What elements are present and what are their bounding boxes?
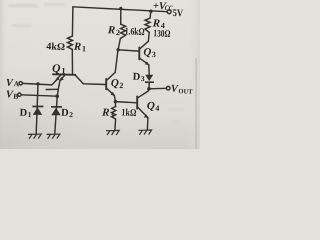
wire: output node to VOUT terminal [149, 87, 166, 90]
wire: R2 bottom lead to node [118, 39, 120, 50]
svg-text:1: 1 [82, 44, 86, 53]
junction dot VA-D1 [36, 82, 39, 85]
svg-text:D: D [61, 108, 69, 119]
Q1 emitter 2 diagonal [60, 75, 65, 80]
Q4 emitter diagonal [138, 107, 148, 117]
diode D3 (pointing down, cathode bar below) [145, 75, 153, 81]
svg-text:3: 3 [152, 50, 156, 59]
transistor Q1 base bar (multi-emitter) [53, 73, 75, 76]
wire: Q3 emitter down to D3 [148, 65, 150, 75]
ground symbols (hatch style) [28, 130, 152, 139]
Q1 emitter 1 arrow [56, 77, 60, 81]
ground under R3 [106, 130, 119, 135]
bottom-left vignette [0, 0, 200, 149]
transistor Q2 base bar [105, 79, 107, 89]
transistor Q4 base bar [136, 96, 138, 108]
wire: D1 vertical to ground [36, 84, 38, 134]
wire: Q3 collector up to R4 [147, 32, 150, 41]
svg-text:1: 1 [61, 65, 66, 75]
svg-text:2: 2 [119, 81, 123, 90]
svg-text:1: 1 [28, 110, 32, 119]
svg-text:3: 3 [110, 110, 114, 119]
junction dot output node [147, 87, 151, 91]
wire: Q4 collector up to output node [147, 89, 150, 91]
wire: R3 bottom lead to ground [114, 119, 117, 130]
wire: node to Q4 base [115, 102, 136, 103]
wire: D2 vertical to ground [55, 96, 57, 134]
wire: node to Q3 base [118, 50, 139, 51]
Q2 collector diagonal [107, 72, 116, 80]
wire: R3 top lead [114, 102, 116, 107]
wire: R4 top lead from rail [149, 11, 152, 18]
svg-text:130Ω: 130Ω [153, 28, 170, 40]
svg-text:D: D [132, 72, 140, 83]
input VA terminal circle [19, 82, 22, 85]
faint bleed-through ghosts [8, 3, 184, 123]
Q1 collector diagonal [75, 75, 83, 84]
wire: R1 bottom lead to Q1 base bar [71, 49, 73, 74]
wire: VA rise to Q1 emitter 1 [52, 81, 56, 85]
input VB terminal circle [18, 93, 21, 96]
diode D1 (cathode bar up, triangle pointing up) [32, 106, 43, 108]
svg-text:A: A [14, 79, 20, 88]
svg-text:2: 2 [116, 28, 120, 37]
junction dot rail-R4 [149, 10, 152, 13]
wire: R2 top lead from rail [120, 8, 122, 24]
Q4 collector diagonal [138, 91, 148, 98]
wire: node down to Q2 collector [115, 50, 118, 73]
emitter / diode arrowheads and junction dots [32, 7, 153, 118]
ground under D1 [28, 134, 41, 139]
svg-text:OUT: OUT [178, 88, 193, 96]
ground under D2 [47, 134, 60, 139]
Q2 emitter diagonal [107, 88, 115, 95]
resistor R1 4k zigzag [68, 36, 73, 49]
junction dot R2/Q3base/Q2collector [116, 48, 119, 51]
junction dot VB-D2 [55, 94, 59, 98]
svg-text:B: B [13, 92, 18, 101]
wire: VB input line [21, 95, 57, 96]
diode D2 [51, 106, 62, 108]
svg-text:R: R [107, 24, 116, 36]
svg-text:2: 2 [69, 110, 73, 119]
resistor R2 1.6k zigzag (teeth right) [120, 24, 125, 38]
svg-text:R: R [101, 107, 110, 119]
resistor R4 130 zigzag [145, 18, 150, 32]
Q1 emitter 2 arrow [60, 77, 64, 81]
junction dot rail-R2 [119, 7, 122, 10]
svg-text:Q: Q [52, 63, 61, 75]
wire: VA input line [23, 83, 52, 85]
Q3 collector diagonal [140, 41, 149, 49]
Q4 emitter arrow [144, 114, 148, 118]
svg-text:1.6kΩ: 1.6kΩ [124, 26, 144, 38]
transistor Q3 base bar [138, 48, 140, 60]
node: VCC terminal circle [167, 10, 171, 14]
Q1 emitter 1 diagonal [56, 75, 61, 80]
wire: VB vertical up from D2 node [57, 89, 58, 96]
wire: vertical up to Q1 emitter 2 [58, 81, 60, 90]
svg-text:Q: Q [147, 100, 155, 112]
wire: Q1 collector to Q2 base [83, 83, 106, 86]
svg-text:D: D [19, 108, 27, 119]
svg-text:3: 3 [141, 74, 145, 83]
junction dot Q2emitter/R3/Q4base [114, 100, 117, 103]
wire: D3 to output node [148, 83, 150, 89]
svg-text:4kΩ: 4kΩ [46, 41, 65, 53]
Q2 emitter arrow [111, 92, 115, 96]
wire: VCC top rail [73, 7, 167, 12]
svg-text:Q: Q [111, 77, 119, 89]
wire: R1 branch lead from rail corner down [71, 7, 74, 36]
wire: Q2 emitter down to node [114, 96, 115, 102]
svg-text:Q: Q [143, 46, 151, 58]
page background [0, 0, 200, 149]
Q3 emitter diagonal [140, 58, 149, 65]
wire: jog at emitter 2 [46, 88, 58, 90]
svg-text:1kΩ: 1kΩ [121, 107, 136, 119]
Q3 emitter arrow [145, 61, 149, 65]
ground under Q4 emitter [138, 130, 151, 135]
output terminal circle [166, 86, 170, 90]
svg-text:5V: 5V [172, 8, 183, 19]
page gutter line right edge [196, 58, 197, 149]
wire: Q4 emitter down to ground [146, 118, 149, 130]
svg-text:R: R [73, 41, 82, 53]
svg-text:4: 4 [155, 104, 159, 113]
resistor R3 1k zigzag [112, 107, 116, 120]
